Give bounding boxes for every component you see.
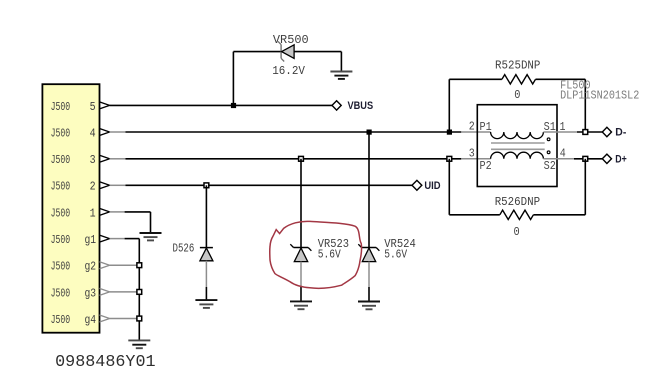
svg-text:J500: J500 — [51, 206, 71, 220]
svg-text:J500: J500 — [51, 100, 71, 114]
svg-text:S1: S1 — [544, 120, 556, 134]
junction D-/R525 — [583, 130, 588, 135]
svg-text:g2: g2 — [85, 260, 97, 274]
svg-text:g4: g4 — [85, 313, 97, 327]
svg-text:P1: P1 — [480, 120, 492, 134]
terminal D+ — [602, 154, 611, 163]
wire pin2 to UID — [110, 184, 126, 186]
svg-text:R526DNP: R526DNP — [495, 195, 540, 209]
resistor R526 right lead — [533, 214, 585, 216]
svg-text:2: 2 — [469, 120, 475, 134]
svg-text:S2: S2 — [544, 159, 556, 173]
junction pin4/R525 — [447, 130, 452, 135]
svg-text:3: 3 — [469, 146, 475, 160]
zener diode VR500 — [278, 41, 294, 61]
wire pin1 ground drop — [150, 212, 152, 233]
resistor R526 body — [500, 210, 534, 219]
diode D526 — [200, 248, 213, 261]
junction pin3/R526 — [447, 156, 452, 161]
svg-text:DLP11SN201SL2: DLP11SN201SL2 — [560, 89, 639, 103]
terminal D- — [602, 127, 611, 136]
pin stub VR523 — [300, 262, 302, 287]
svg-text:J500: J500 — [51, 180, 71, 194]
svg-text:VR500: VR500 — [273, 33, 309, 47]
junction g3 — [137, 290, 142, 295]
resistor R525 left riser — [448, 79, 450, 132]
svg-text:5.6V: 5.6V — [318, 247, 342, 261]
ground VR500 — [330, 72, 352, 79]
pin 2 symbol — [100, 182, 110, 189]
zener diode VR524 — [358, 244, 379, 261]
pin stub FL500 pin2 — [461, 131, 490, 133]
wire S2 to D+ — [574, 158, 602, 160]
wire g2 — [110, 264, 140, 266]
svg-text:VBUS: VBUS — [348, 100, 374, 112]
wire VR500 ground drop — [340, 52, 342, 72]
svg-text:5.6V: 5.6V — [384, 247, 408, 261]
pin 3 symbol — [100, 155, 110, 162]
wire D526 top — [205, 185, 207, 247]
wire VR500 left vertical — [232, 52, 234, 106]
red annotation circle — [270, 221, 362, 288]
pin g3 symbol — [100, 288, 110, 295]
ground VR524 — [358, 302, 380, 310]
junction pin5/VR500 — [231, 103, 236, 108]
ground VR523 — [290, 301, 312, 309]
svg-text:2: 2 — [90, 180, 96, 194]
polarity dot S2 — [547, 151, 550, 154]
resistor R525 right lead — [536, 78, 586, 80]
wire pin1 — [110, 211, 125, 213]
wire g1 — [110, 238, 125, 240]
svg-text:0988486Y01: 0988486Y01 — [55, 352, 156, 371]
wire pin5 to VBUS — [110, 104, 332, 106]
svg-text:3: 3 — [90, 153, 96, 167]
wire D526 bottom — [205, 287, 207, 300]
svg-text:4: 4 — [90, 126, 96, 140]
FL500 primary winding P1-S1 — [491, 132, 577, 139]
pin 5 symbol — [100, 102, 110, 109]
wire S1 to D- — [577, 131, 602, 133]
svg-text:J500: J500 — [51, 260, 71, 274]
pin stub D526 — [205, 261, 207, 287]
svg-text:16.2V: 16.2V — [272, 64, 305, 78]
junction pin2/D526 — [204, 183, 209, 188]
svg-text:J500: J500 — [51, 153, 71, 167]
svg-text:0: 0 — [514, 225, 520, 239]
svg-text:D526: D526 — [173, 241, 195, 255]
connector J500 row labels — [51, 100, 97, 327]
svg-text:g1: g1 — [85, 233, 97, 247]
terminal VBUS — [332, 101, 341, 110]
svg-text:5: 5 — [90, 100, 96, 114]
wire pin3 to FL500 — [110, 158, 126, 160]
resistor R525 left lead — [449, 78, 502, 80]
connector J500 body — [42, 84, 99, 333]
svg-text:UID: UID — [424, 180, 440, 192]
pin g4 symbol — [100, 315, 110, 322]
svg-text:0: 0 — [514, 88, 520, 102]
wire VR523 top — [300, 159, 302, 248]
wire VR524 top — [368, 132, 370, 248]
svg-text:1: 1 — [90, 206, 96, 220]
svg-text:P2: P2 — [480, 159, 492, 173]
resistor R526 left riser — [448, 159, 450, 215]
svg-text:g3: g3 — [85, 286, 97, 300]
pin 4 symbol — [100, 129, 110, 136]
wire g4 — [110, 318, 140, 320]
ground D526 — [195, 300, 217, 308]
svg-text:D-: D- — [615, 127, 626, 139]
resistor R526 right riser — [584, 159, 586, 215]
junction g4 — [137, 316, 142, 321]
junction pin4/VR524 — [367, 130, 372, 135]
resistor R525 right riser — [584, 79, 586, 132]
wire ground bus vertical — [138, 239, 140, 341]
pin stub VR524 — [368, 262, 370, 287]
wire VR500 top left — [233, 51, 281, 53]
ground bus — [128, 340, 150, 348]
wire g3 — [110, 291, 140, 293]
junction g2 — [137, 263, 142, 268]
svg-text:4: 4 — [560, 146, 566, 160]
polarity dot S1 — [547, 138, 550, 141]
ground pin1 — [140, 233, 162, 240]
core lines — [491, 143, 545, 149]
zener diode VR523 — [290, 244, 311, 261]
svg-text:J500: J500 — [51, 286, 71, 300]
resistor R526 left lead — [449, 214, 500, 216]
terminal UID — [412, 180, 422, 190]
pin g2 symbol — [100, 262, 110, 269]
wire pin4 to FL500 — [110, 131, 126, 133]
wire VR500 top right — [294, 51, 341, 53]
svg-text:D+: D+ — [615, 154, 627, 166]
svg-text:J500: J500 — [51, 126, 71, 140]
pin 1 symbol — [100, 208, 110, 215]
junction pin3/VR523 — [299, 156, 304, 161]
FL500 secondary winding P2-S2 — [491, 152, 574, 159]
junction D+/R526 — [583, 156, 588, 161]
wire VR524 bottom — [368, 287, 370, 302]
svg-text:R525DNP: R525DNP — [495, 58, 540, 72]
pin stub FL500 pin3 — [461, 158, 490, 160]
svg-text:J500: J500 — [51, 233, 71, 247]
resistor R525 body — [502, 75, 536, 84]
svg-text:J500: J500 — [51, 313, 71, 327]
choke FL500 box — [477, 105, 557, 187]
wire VR523 bottom — [300, 287, 302, 301]
svg-text:1: 1 — [560, 120, 566, 134]
pin g1 symbol — [100, 235, 110, 242]
